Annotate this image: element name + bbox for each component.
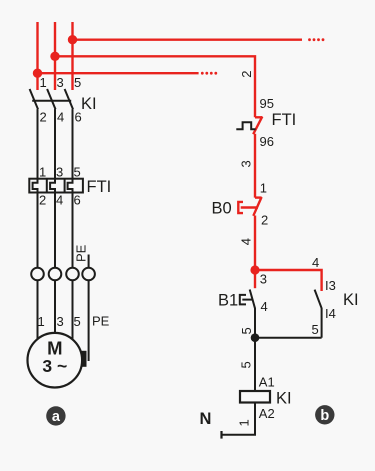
svg-text:KI: KI	[276, 390, 292, 408]
badge a	[46, 406, 65, 425]
wire FTI to terminal 2	[54, 193, 56, 268]
wire L1 bus dotted continuation	[201, 72, 217, 75]
wire B1 to node2	[254, 308, 256, 338]
terminal circle 3	[66, 268, 79, 281]
coil KI rectangle	[240, 391, 270, 403]
contactor KI main contact pole 1	[30, 89, 38, 109]
wire FTI to terminal 1	[37, 193, 39, 268]
node junction L1	[33, 69, 42, 78]
PE pad on motor	[81, 351, 86, 367]
svg-text:4: 4	[56, 192, 63, 207]
node junction L3	[68, 35, 77, 44]
svg-text:FTI: FTI	[87, 178, 112, 196]
wire node to B1	[254, 270, 256, 288]
node2 junction dot	[251, 333, 260, 342]
button B1 actuator rod	[242, 299, 252, 301]
mechanical linkage KI	[32, 100, 71, 102]
svg-text:3: 3	[57, 75, 64, 90]
svg-text:95: 95	[260, 96, 274, 111]
svg-text:I3: I3	[325, 278, 336, 293]
wire L3 vertical feeder	[71, 22, 73, 90]
FTI heater element phase 2	[50, 179, 55, 193]
FTI heater element phase 3	[68, 179, 73, 193]
svg-text:A1: A1	[259, 375, 275, 390]
wire coil to N	[222, 403, 256, 435]
svg-text:2: 2	[261, 213, 268, 228]
control: thermal release actuator	[236, 122, 255, 129]
wire branch to KI aux	[255, 270, 322, 291]
svg-text:5: 5	[74, 164, 81, 179]
wire KI aux down	[321, 308, 323, 338]
svg-text:a: a	[52, 409, 61, 425]
wire L2 horizontal to control circuit	[55, 56, 255, 117]
button B1 blade	[250, 290, 255, 309]
wire pole3 to FTI	[72, 109, 74, 179]
wire L1 vertical feeder	[36, 22, 38, 90]
svg-text:4: 4	[312, 255, 319, 270]
svg-text:1: 1	[39, 164, 46, 179]
svg-text:FTI: FTI	[272, 111, 297, 129]
node branch dot	[250, 265, 259, 274]
button B0 actuator rod	[241, 206, 258, 208]
svg-text:KI: KI	[343, 291, 359, 309]
control: FTI NC contact blade	[253, 117, 262, 135]
svg-text:B1: B1	[218, 292, 238, 310]
contactor KI main contact pole 3	[65, 89, 73, 109]
svg-text:5: 5	[239, 361, 254, 368]
svg-text:PE: PE	[74, 244, 89, 262]
terminal circle 1	[31, 268, 44, 281]
wire B0 to node	[254, 216, 256, 271]
svg-text:I4: I4	[325, 306, 336, 321]
svg-text:1: 1	[40, 75, 47, 90]
svg-text:1: 1	[236, 419, 251, 426]
svg-text:1: 1	[38, 314, 45, 329]
wire L1 horizontal bus	[38, 72, 199, 74]
svg-text:1: 1	[260, 181, 267, 196]
svg-text:6: 6	[75, 110, 82, 125]
wire terminal2 to motor	[54, 280, 56, 334]
svg-text:6: 6	[74, 192, 81, 207]
svg-text:2: 2	[239, 71, 254, 78]
thermal overload FTI box	[29, 179, 83, 193]
wire PE to motor pad	[88, 280, 90, 361]
svg-text:3: 3	[56, 164, 63, 179]
svg-text:5: 5	[74, 314, 81, 329]
FTI cell divider 2	[64, 179, 66, 193]
svg-text:3: 3	[239, 160, 254, 167]
contactor KI main contact pole 2	[47, 89, 55, 109]
svg-text:A2: A2	[259, 406, 275, 421]
wire node2 to coil	[254, 338, 256, 391]
motor M circle	[28, 333, 83, 388]
svg-text:3 ~: 3 ~	[42, 356, 67, 376]
svg-text:3: 3	[57, 314, 64, 329]
svg-text:B0: B0	[212, 199, 232, 217]
svg-text:4: 4	[261, 299, 268, 314]
button B0 actuator bracket	[238, 202, 243, 213]
wire PE conductor top	[88, 255, 90, 268]
button B1 actuator bracket	[240, 295, 246, 305]
wire pole1 to FTI	[37, 109, 39, 179]
button B0 blade	[253, 197, 261, 216]
wire FTI to terminal 3	[72, 193, 74, 268]
svg-text:N: N	[200, 410, 212, 428]
FTI heater element phase 1	[33, 179, 38, 193]
svg-text:3: 3	[260, 272, 267, 287]
node junction L2	[50, 52, 59, 61]
wire FTI to B0	[254, 134, 256, 198]
button B0 seat	[255, 196, 262, 198]
svg-text:4: 4	[57, 110, 64, 125]
svg-text:2: 2	[40, 110, 47, 125]
terminal circle 2	[49, 268, 62, 281]
svg-text:PE: PE	[92, 314, 110, 329]
wire pole2 to FTI	[54, 109, 56, 179]
svg-text:5: 5	[312, 322, 319, 337]
control: FTI NC contact seat	[255, 116, 262, 118]
svg-text:4: 4	[239, 238, 254, 245]
svg-text:5: 5	[239, 327, 254, 334]
KI aux contact blade	[315, 290, 322, 309]
terminal N tick	[220, 431, 222, 439]
wire terminal3 to motor	[72, 280, 74, 340]
wire L3 bus dotted continuation	[308, 38, 324, 41]
wire aux branch bottom	[255, 337, 322, 339]
svg-text:KI: KI	[81, 95, 97, 113]
terminal circle PE	[82, 268, 95, 281]
FTI cell divider 1	[46, 179, 48, 193]
svg-text:2: 2	[39, 192, 46, 207]
wire terminal1 to motor	[37, 280, 39, 340]
wire L3 horizontal bus top	[73, 39, 303, 41]
svg-text:96: 96	[260, 134, 274, 149]
wire L2 vertical feeder	[54, 22, 56, 90]
svg-text:5: 5	[74, 75, 81, 90]
svg-text:b: b	[320, 408, 329, 424]
badge b	[315, 405, 334, 424]
